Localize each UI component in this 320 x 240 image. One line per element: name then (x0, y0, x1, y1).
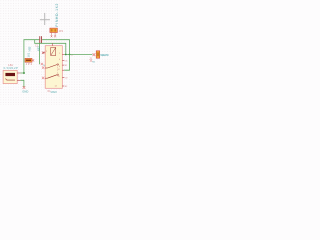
wire net N$2 (coil top) (35, 40, 66, 55)
speaker pin 1 (17, 72, 20, 74)
pin 2 of JP1 (54, 33, 56, 38)
svg-text:JP2: JP2 (26, 63, 33, 66)
wire speaker pin2 to GND (20, 80, 24, 87)
junction N$2/main (65, 54, 67, 56)
wire speaker pin1 to junction (20, 72, 24, 74)
speaker pin 2 (17, 79, 20, 81)
svg-text:1X1: 1X1 (26, 52, 30, 57)
relay K1 box (45, 46, 62, 89)
relay pin name texts (65, 55, 74, 88)
svg-text:F/CM12P: F/CM12P (4, 67, 19, 70)
relay contact 2 (45, 75, 57, 79)
GND pin cross (23, 86, 26, 89)
capacitor C1 (40, 36, 42, 43)
wire net to connector X2 (64, 54, 92, 56)
relay coil pin 2 (left) (42, 52, 45, 54)
origin cross (40, 13, 50, 25)
speaker lower line (5, 79, 15, 81)
junction N$1/main (69, 54, 71, 56)
svg-text:N$11-PAD: N$11-PAD (100, 53, 109, 57)
relay pin number texts (46, 51, 61, 87)
wire net N$1 top horizontal (24, 40, 70, 73)
pin 1 of X1 (32, 59, 34, 61)
speaker LS1 (3, 70, 17, 83)
svg-text:GND: GND (22, 90, 28, 94)
svg-text:N$5: N$5 (28, 46, 32, 51)
relay contact 1 left pin cross (42, 67, 44, 69)
svg-text:JP1: JP1 (59, 29, 64, 33)
junction at speaker top pin (23, 72, 25, 74)
connector X2 (96, 51, 100, 58)
connector X2 pin cross (93, 53, 96, 56)
relay contact 2 left pin cross (42, 77, 44, 79)
relay coil (51, 48, 56, 56)
wire branch down to node (39, 43, 41, 64)
unconnected pin cross near node (41, 63, 43, 65)
wire from relay contact pin (64, 55, 69, 71)
speaker plate (5, 73, 15, 76)
relay right pins (62, 55, 64, 87)
svg-text:PINHD-1X2: PINHD-1X2 (55, 3, 59, 26)
svg-text:N$3: N$3 (36, 46, 40, 51)
pin 1 of JP1 (51, 33, 53, 38)
svg-text:G5V2: G5V2 (51, 91, 58, 94)
pin 2 cross of X2 (90, 60, 92, 62)
connector JP1 (50, 28, 58, 32)
relay linkage dashed (56, 66, 58, 74)
relay contact 1 (45, 65, 57, 69)
relay coil pin 1 (top) (52, 43, 54, 45)
connector X1 left (25, 58, 32, 62)
